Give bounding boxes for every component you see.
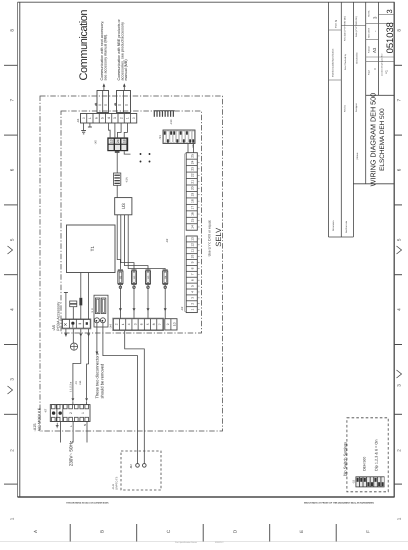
connector X1N hatched (114, 173, 121, 185)
svg-text:U3: U3 (121, 203, 126, 209)
svg-text:A/C-MODULE: A/C-MODULE (38, 407, 42, 431)
title block page cell (368, 68, 378, 75)
svg-text:E: E (299, 530, 304, 533)
fuse component F4 (163, 270, 168, 289)
DIP switch S2 graphic (356, 476, 385, 487)
label GP/PTC-TS (112, 476, 119, 490)
svg-text:=: = (374, 68, 378, 70)
svg-text:3: 3 (385, 9, 394, 13)
protective earth symbol (70, 329, 77, 350)
svg-text:-X6: -X6 (76, 118, 80, 123)
communication note 2 text (117, 18, 128, 80)
svg-text:9: 9 (191, 261, 195, 263)
earth stub below X6 cell 2 (88, 123, 92, 127)
svg-text:ON: ON (191, 144, 194, 148)
svg-text:Number rule: Number rule (345, 220, 348, 233)
svg-text:PCBA Accessory: PCBA Accessory (56, 302, 61, 331)
svg-text:1 1,5 2 ø: 1 1,5 2 ø (70, 381, 73, 392)
svg-text:N O: N O (91, 308, 94, 312)
svg-text:24: 24 (116, 139, 120, 143)
title block next sheet cell (368, 28, 378, 38)
svg-text:dB: dB (114, 103, 117, 106)
note Use LiYY DXX or equal (207, 220, 211, 257)
svg-text:6: 6 (94, 117, 98, 119)
terminal group X4b (165, 319, 177, 330)
SELV label (214, 227, 223, 247)
svg-text:6: 6 (397, 168, 402, 171)
svg-text:| Status: | Status (356, 152, 359, 160)
svg-text:11: 11 (191, 249, 195, 253)
svg-text:1: 1 (88, 117, 92, 119)
label -S1 (158, 135, 162, 140)
svg-text:10: 10 (172, 322, 176, 326)
label -A15 AC-MODULE (33, 407, 42, 431)
svg-text:1: 1 (81, 412, 85, 414)
margin column numbers right (397, 29, 402, 521)
connector X5 dark block (107, 137, 128, 152)
dip switch settings dashed box (347, 418, 388, 492)
svg-text:Dimension: Dimension (332, 220, 335, 231)
margin note text bottom-right (304, 502, 374, 505)
svg-text:-X5: -X5 (93, 140, 97, 145)
svg-text:2: 2 (191, 303, 195, 305)
outer accessory dash-dot boundary (40, 96, 223, 431)
dip box label Dip 1 2 3 and 6 On (374, 440, 378, 471)
svg-text:3: 3 (397, 384, 402, 387)
plug P1 tiny label (94, 103, 97, 106)
plug P2 tiny label (114, 103, 117, 106)
svg-text:WIRING DIAGRAM DEH 500: WIRING DIAGRAM DEH 500 (368, 93, 377, 186)
wires plugs to X6 (100, 113, 127, 114)
svg-text:1: 1 (126, 117, 130, 119)
svg-text:B: B (100, 530, 105, 533)
label -X5 (93, 140, 97, 145)
label -S2 (352, 479, 355, 484)
margin note text bottom-left (66, 502, 109, 505)
svg-text:4: 4 (397, 308, 402, 311)
wire from fuse to mains with arrow (96, 323, 99, 355)
svg-text:005023-2: 005023-2 (215, 541, 224, 544)
title block title text line 1 WIRING DIAGRAM DEH 500 (368, 93, 377, 186)
svg-text:B1: B1 (120, 275, 123, 279)
svg-text:23: 23 (191, 167, 195, 171)
svg-text:13: 13 (191, 237, 195, 241)
label -X1N (125, 177, 128, 183)
svg-text:-X10: -X10 (170, 119, 173, 125)
sensor terminals (136, 464, 146, 468)
svg-text:-X4: -X4 (109, 324, 113, 329)
SELV dash-dot boundary (61, 111, 202, 333)
wire X5 to X1N (116, 153, 118, 173)
label -X10 (170, 119, 173, 125)
svg-text:21: 21 (191, 180, 195, 184)
terminal strip X2 upper group (186, 153, 197, 231)
label -X7 (44, 408, 48, 413)
leader arrow to note 2 (123, 83, 126, 90)
test point dots (140, 153, 151, 162)
svg-text:6: 6 (10, 168, 15, 171)
connector X7 AC module (50, 405, 90, 422)
svg-text:WATCH NOTE AT FRONT OF THIS DO: WATCH NOTE AT FRONT OF THIS DOCUMENT SEA… (304, 502, 374, 505)
fuse holder F1 block (94, 295, 108, 327)
svg-text:-S1: -S1 (158, 135, 162, 140)
dip box heading (342, 442, 347, 476)
terminal block A5 PCBA accessory (62, 319, 91, 329)
svg-text:GP/PTC-TS: GP/PTC-TS (116, 476, 119, 490)
svg-text:3: 3 (191, 297, 195, 299)
label -X2 upper (165, 238, 169, 243)
svg-text:4: 4 (10, 308, 15, 311)
svg-text:22: 22 (191, 173, 195, 177)
svg-text:7: 7 (397, 98, 402, 101)
svg-text:6: 6 (140, 323, 144, 325)
svg-text:9: 9 (166, 323, 170, 325)
svg-text:2: 2 (119, 117, 123, 119)
wire to sensor left (103, 323, 138, 464)
svg-text:=1: =1 (384, 70, 388, 74)
svg-text:B3: B3 (147, 275, 150, 279)
svg-text:Material Quality/Specification: Material Quality/Specification (332, 48, 335, 77)
svg-text:0: 0 (82, 117, 86, 119)
svg-text:3: 3 (133, 323, 137, 325)
svg-text:Format: Format (368, 46, 371, 53)
wire X1N to U3 (116, 185, 118, 197)
svg-text:24: 24 (191, 160, 195, 164)
svg-text:15: 15 (191, 219, 195, 223)
fuse component F1 (118, 270, 123, 289)
svg-text:Use LiYY, DXX or equal.: Use LiYY, DXX or equal. (207, 220, 211, 257)
X2 bracket line (185, 154, 187, 312)
svg-text:2: 2 (397, 449, 402, 452)
svg-text:16: 16 (191, 212, 195, 216)
wires U3 to fuse row (117, 215, 165, 269)
svg-text:dB: dB (94, 103, 97, 106)
svg-text:ELSCHEMA DEH 500: ELSCHEMA DEH 500 (379, 108, 386, 171)
svg-text:×: × (64, 323, 68, 329)
label -X6 (76, 118, 80, 123)
svg-text:12: 12 (191, 243, 195, 247)
svg-text:4: 4 (107, 117, 111, 119)
title block title text line 2 ELSCHEMA DEH 500 (379, 108, 386, 171)
margin ticks left (4, 65, 18, 484)
svg-text:8: 8 (152, 323, 156, 325)
dip box label DEH 500 (362, 457, 366, 471)
svg-text:Mass kg: Mass kg (335, 19, 338, 28)
margin ticks right (394, 65, 402, 484)
svg-text:-S2: -S2 (352, 479, 355, 484)
module U3 (115, 198, 132, 215)
svg-text:5: 5 (101, 117, 105, 119)
svg-text:10A: 10A (79, 380, 82, 385)
fold mark right lower (397, 370, 402, 378)
svg-text:0: 0 (132, 117, 136, 119)
transformer T1 (67, 225, 116, 273)
margin ticks bottom (70, 524, 336, 542)
svg-text:Communication: Communication (78, 10, 90, 81)
svg-text:-X2: -X2 (165, 238, 169, 243)
svg-text:Rev Checked by: Rev Checked by (344, 53, 347, 70)
svg-text:8: 8 (10, 29, 15, 32)
title block small labels column 3 (355, 16, 359, 160)
svg-text:-X2: -X2 (180, 306, 184, 311)
svg-text:13: 13 (110, 139, 114, 143)
title block drawing number 051038 (384, 22, 395, 53)
title block grid (329, 2, 395, 237)
svg-text:Designer: Designer (355, 103, 358, 112)
svg-text:B2: B2 (133, 275, 136, 279)
margin column numbers left (10, 29, 15, 521)
stub above A5 cell1 with end bar (64, 293, 68, 320)
label -A5 PCBA Accessory (51, 302, 61, 331)
svg-text:see accessory manual (MB).: see accessory manual (MB). (104, 34, 108, 81)
svg-text:19: 19 (191, 193, 195, 197)
svg-text:25: 25 (191, 154, 195, 158)
svg-text:5: 5 (397, 238, 402, 241)
communication note 1 text (100, 21, 107, 81)
svg-text:T1: T1 (90, 246, 95, 252)
DIP switch S1 (163, 130, 195, 144)
svg-text:-X7: -X7 (44, 408, 48, 413)
wire N to X7 (85, 337, 88, 405)
label -X4 (109, 324, 113, 329)
X2 right side stubs (197, 156, 199, 310)
mains supply label 230V 50Hz (69, 440, 74, 466)
title block sheets cell (368, 11, 378, 19)
terminal strip X2 lower group (186, 236, 197, 313)
svg-text:-M2: -M2 (129, 464, 133, 469)
communication heading text (78, 10, 90, 81)
svg-text:Sheets: Sheets (368, 11, 371, 17)
svg-text:6: 6 (191, 279, 195, 281)
svg-text:4: 4 (127, 323, 131, 325)
svg-text:2: 2 (10, 449, 15, 452)
svg-text:1: 1 (397, 517, 402, 520)
svg-text:Rev date (YYYY-MM-DD): Rev date (YYYY-MM-DD) (344, 16, 347, 41)
title block small labels column 2 (344, 16, 349, 233)
svg-text:7: 7 (191, 273, 195, 275)
cable spec text (70, 380, 83, 392)
title block small labels column 1 (332, 19, 338, 231)
fuse component F3 (145, 270, 150, 289)
svg-text:Date (YYYY-MM-DD): Date (YYYY-MM-DD) (355, 16, 358, 37)
mains wires below X7 (61, 422, 87, 443)
svg-text:051038: 051038 (384, 22, 395, 53)
svg-text:-A15: -A15 (33, 423, 37, 431)
svg-text:20: 20 (191, 186, 195, 190)
svg-text:-X1N: -X1N (125, 177, 128, 183)
svg-text:14: 14 (191, 225, 195, 229)
wires fuse row to X4 with plug arrows (119, 289, 167, 319)
svg-text:THIS DRAWING IS DELV ON DANISH: THIS DRAWING IS DELV ON DANISH BANK (66, 502, 109, 505)
svg-text:A3: A3 (372, 47, 377, 53)
svg-text:2: 2 (115, 323, 119, 325)
svg-text:Dip 1,2,3 & 6 = On: Dip 1,2,3 & 6 = On (374, 440, 378, 471)
wires T1 to A5 block (79, 273, 88, 320)
label -M2 (129, 464, 133, 469)
wires S1 to X2 (188, 144, 194, 153)
communication plug connector P2 (117, 91, 131, 113)
label fuse NO (91, 308, 94, 312)
floor sensor dashed box (121, 451, 161, 490)
wire to sensor right (125, 331, 145, 464)
svg-text:17: 17 (191, 206, 195, 210)
svg-text:8: 8 (191, 267, 195, 269)
title block sheet number 3 (385, 9, 394, 13)
title block location drawing no labels (380, 54, 388, 76)
svg-text:7: 7 (10, 98, 15, 101)
svg-text:DEH 500: DEH 500 (362, 457, 366, 471)
title block format cell (368, 46, 378, 53)
disconnector links (70, 301, 77, 319)
SELV crossing arrows below A5 (65, 329, 91, 337)
communication plug connector P1 (97, 91, 109, 113)
svg-text:manual (MB): manual (MB) (124, 59, 128, 80)
wire L to X7 (72, 337, 81, 405)
svg-text:N: N (83, 424, 87, 426)
svg-text:Next sheet: Next sheet (368, 28, 371, 38)
fold mark right upper (397, 246, 402, 254)
svg-text:230V~ 50Hz: 230V~ 50Hz (69, 440, 74, 466)
note these two disconnectors (94, 353, 104, 398)
label -X2 lower (180, 306, 184, 311)
svg-text:Page: Page (368, 69, 371, 75)
svg-text:3: 3 (113, 117, 117, 119)
svg-text:18: 18 (191, 199, 195, 203)
ground symbol below X6 cell 1 (81, 123, 86, 134)
svg-text:7: 7 (158, 323, 162, 325)
svg-text:1: 1 (10, 517, 15, 520)
svg-text:4: 4 (191, 291, 195, 293)
svg-text:SELV: SELV (214, 227, 223, 247)
svg-text:1: 1 (191, 309, 195, 311)
svg-text:-CH1: -CH1 (112, 484, 115, 490)
svg-text:1: 1 (121, 323, 125, 325)
fold mark left upper (8, 246, 13, 254)
terminal strip X4 (113, 318, 164, 331)
svg-text:F: F (366, 530, 371, 533)
svg-text:5: 5 (146, 323, 150, 325)
fold mark left lower (8, 386, 13, 394)
svg-text:should be removed: should be removed (99, 363, 104, 399)
svg-text:5: 5 (191, 285, 195, 287)
leader arrow to note 1 (103, 83, 106, 90)
svg-text:8: 8 (397, 29, 402, 32)
svg-text:Part Specification Dense: Part Specification Dense (175, 541, 198, 544)
svg-text:10: 10 (191, 255, 195, 259)
connector X10 comb (154, 111, 175, 117)
svg-text:Location Drawing no Re: Location Drawing no Rev (380, 54, 383, 76)
svg-text:Checked by: Checked by (355, 52, 358, 64)
X7 output pin labels (56, 423, 87, 428)
svg-text:B4: B4 (165, 275, 168, 279)
print info text bottom edge (175, 541, 224, 544)
svg-text:2: 2 (69, 412, 73, 414)
svg-text:5: 5 (10, 238, 15, 241)
wire stub right of X5 (124, 151, 130, 154)
fuse component F2 (131, 270, 136, 289)
label ON for S1 (191, 144, 194, 148)
terminal strip X6 (81, 114, 137, 124)
svg-text:Dip Switch Settings: Dip Switch Settings (342, 442, 347, 476)
margin row letters bottom (33, 529, 371, 533)
svg-text:3: 3 (10, 378, 15, 381)
wires X6 to X5 connector (109, 123, 128, 137)
svg-text:18: 18 (123, 139, 127, 143)
svg-text:Rev by: Rev by (344, 104, 347, 112)
